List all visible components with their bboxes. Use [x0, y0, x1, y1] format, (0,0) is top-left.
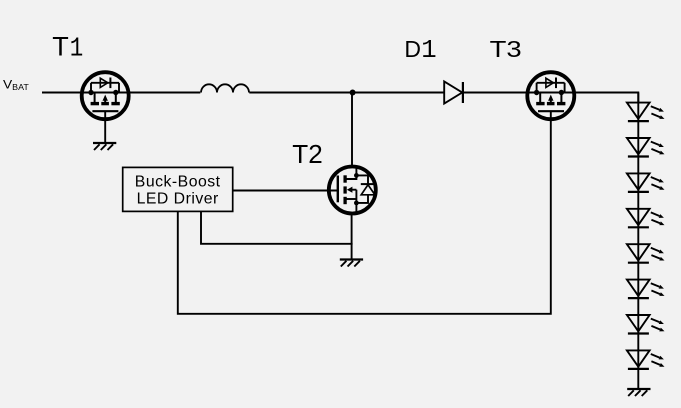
wire T3 to LED string [573, 93, 639, 103]
wire driver output to T2 gate [233, 190, 338, 192]
wire node to T2 drain [351, 93, 353, 169]
transistor T3 [527, 72, 574, 121]
svg-text:1: 1 [421, 36, 436, 65]
inductor L1 [201, 84, 249, 92]
LED D8 [627, 315, 665, 334]
LED D6 [627, 244, 665, 263]
LED D7 [627, 280, 665, 299]
svg-text:T: T [52, 32, 69, 62]
svg-text:T2: T2 [292, 139, 322, 169]
diode D1 [444, 82, 463, 104]
svg-text:T3: T3 [490, 36, 522, 62]
transistor T2 [329, 166, 376, 215]
wire T1 to inductor [127, 92, 201, 94]
wire T1 gate to ground [104, 120, 106, 143]
wire driver to T3 gate [178, 120, 551, 314]
wire T2 source to ground [351, 212, 353, 260]
box Buck-Boost LED Driver [123, 167, 233, 211]
wire node to D1 [353, 92, 445, 94]
LED D4 [627, 173, 665, 192]
wire LED chain [637, 93, 639, 390]
wire VBAT to T1 [42, 92, 84, 94]
ground at LED string [627, 389, 650, 396]
wire inductor to switch node [249, 92, 352, 94]
wire driver to T2 source sense [201, 211, 353, 243]
svg-text:LED Driver: LED Driver [137, 191, 219, 208]
LED D2 [627, 103, 665, 122]
transistor T1 [82, 72, 129, 121]
LED D5 [627, 209, 665, 228]
LED D3 [627, 138, 665, 157]
svg-text:V: V [3, 77, 12, 91]
node switch junction [350, 90, 356, 96]
wire D1 to T3 [463, 92, 528, 94]
ground at T2 source [340, 260, 363, 267]
svg-text:BAT: BAT [12, 83, 29, 92]
svg-text:1: 1 [70, 35, 84, 65]
svg-text:Buck-Boost: Buck-Boost [135, 174, 221, 191]
ground at T1 gate [93, 143, 116, 150]
LED D9 [627, 350, 665, 369]
svg-text:D: D [404, 36, 421, 62]
